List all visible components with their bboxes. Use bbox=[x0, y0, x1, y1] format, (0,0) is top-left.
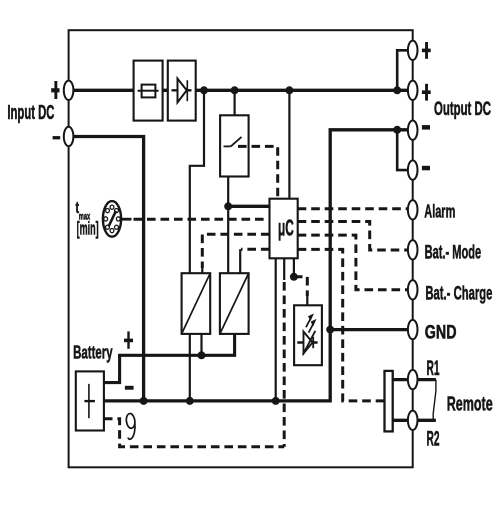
led symbol H1 bbox=[297, 315, 317, 355]
svg-text:Bat.- Charge: Bat.- Charge bbox=[425, 282, 492, 304]
led box bbox=[294, 305, 322, 365]
alarm terminal bbox=[408, 200, 418, 219]
timer knob tmax bbox=[103, 201, 121, 237]
wire uC power feed bbox=[228, 205, 269, 208]
converter box T2 bbox=[220, 273, 249, 334]
wire input plus bus y=90 bbox=[71, 89, 409, 92]
remote switch contact bbox=[433, 380, 436, 421]
svg-text:Bat.- Mode: Bat.- Mode bbox=[425, 241, 482, 263]
dashed switch control line bbox=[238, 146, 278, 198]
output minus sign 2 bbox=[422, 166, 430, 171]
uC led pin solid stub bbox=[293, 258, 295, 277]
junction dot uC power bbox=[224, 202, 232, 210]
wire switch output to converter2 top bbox=[227, 177, 229, 274]
wire converter1 bottom left pin to minus bus bbox=[189, 334, 191, 401]
junction dot battery plus converter1 bbox=[198, 351, 206, 359]
junction dot plus bus at switch feed bbox=[231, 86, 239, 94]
svg-text:Output DC: Output DC bbox=[434, 99, 491, 120]
svg-text:Alarm: Alarm bbox=[424, 201, 455, 222]
output minus sign 1 bbox=[422, 125, 430, 130]
fuse symbol F1 bbox=[138, 85, 159, 98]
bat mode terminal bbox=[408, 240, 418, 259]
wire GND bbox=[330, 328, 409, 331]
svg-text:Remote: Remote bbox=[447, 394, 493, 416]
battery plus sign bbox=[124, 331, 133, 348]
input plus sign bbox=[51, 81, 59, 99]
wire R1 bbox=[393, 378, 436, 381]
converter1 control solid stub bbox=[201, 266, 203, 273]
junction dot plus bus at converter jog bbox=[200, 86, 208, 94]
wire switch feed bbox=[234, 90, 236, 115]
output minus terminal 2 bbox=[408, 160, 418, 179]
svg-text:GND: GND bbox=[425, 323, 457, 344]
fuse box bbox=[134, 61, 163, 121]
dashed theta line from battery bbox=[104, 419, 284, 447]
wire uC pin1 to minus bus bbox=[275, 258, 277, 401]
svg-text:Input DC: Input DC bbox=[7, 102, 54, 124]
dashed theta line vertical bbox=[283, 282, 286, 447]
junction dot minus bus converter1 bbox=[186, 397, 194, 405]
battery minus sign bbox=[125, 386, 134, 390]
dashed remote line bbox=[298, 249, 385, 401]
svg-text:μC: μC bbox=[278, 215, 294, 241]
output plus terminal 1 bbox=[408, 41, 418, 60]
wire jog from plus bus to converter1 top bbox=[190, 90, 204, 273]
remote connector plug bbox=[385, 371, 393, 432]
svg-text:R1: R1 bbox=[427, 357, 440, 380]
dashed bat mode line bbox=[298, 222, 407, 251]
uC theta pin solid stub bbox=[283, 258, 285, 280]
input minus sign bbox=[53, 136, 61, 139]
junction dot plus bus at output branch bbox=[393, 86, 401, 94]
wire battery plus bbox=[104, 334, 235, 383]
output plus terminal 2 bbox=[408, 81, 418, 100]
junction dot gnd bbox=[326, 326, 334, 334]
gnd terminal bbox=[408, 320, 418, 339]
dashed converter2 control line bbox=[241, 248, 270, 251]
wire branch to output minus 2 bbox=[397, 130, 409, 170]
dashed timer line to uC bbox=[134, 218, 270, 221]
switch symbol S1 bbox=[224, 137, 242, 147]
junction dot plus bus at uC sense bbox=[285, 86, 293, 94]
svg-text:[min]: [min] bbox=[77, 219, 99, 239]
diode box bbox=[168, 61, 196, 121]
wire uC sense from plus bus bbox=[288, 90, 290, 198]
dashed led control line bbox=[294, 277, 307, 296]
wire converter1 bottom right pin bbox=[200, 334, 202, 355]
output plus sign 2 bbox=[422, 84, 431, 101]
input minus terminal bbox=[64, 127, 74, 146]
converter2 control solid stub bbox=[239, 249, 241, 273]
output minus terminal 1 bbox=[408, 121, 418, 140]
input plus terminal bbox=[64, 81, 74, 100]
outer enclosure border bbox=[69, 30, 413, 467]
dashed converter1 control line bbox=[202, 234, 269, 268]
junction dot minus bus uC bbox=[272, 397, 280, 405]
theta symbol bbox=[126, 413, 136, 439]
led top pin solid stub bbox=[306, 295, 308, 305]
R2 terminal bbox=[408, 411, 418, 430]
svg-text:R2: R2 bbox=[427, 427, 440, 451]
R1 terminal bbox=[408, 370, 418, 389]
wire R2 bbox=[393, 419, 436, 422]
dashed bat charge line bbox=[298, 235, 407, 290]
switch box bbox=[220, 115, 249, 176]
wire branch to output plus 1 bbox=[397, 50, 409, 90]
wire output minus bus bbox=[104, 130, 409, 401]
junction dot minus bus at output branch bbox=[393, 126, 401, 134]
junction dot minus bus input bbox=[140, 397, 148, 405]
microcontroller box U1 bbox=[270, 199, 298, 259]
battery cell symbol bbox=[84, 384, 95, 418]
timer output solid stub bbox=[121, 218, 131, 221]
dashed alarm line bbox=[298, 207, 407, 210]
output plus sign 1 bbox=[422, 42, 431, 59]
junction dot led control bbox=[290, 273, 298, 281]
diode symbol V1 bbox=[172, 79, 192, 103]
converter box T1 bbox=[182, 273, 211, 334]
battery box G1 bbox=[76, 371, 104, 430]
bat charge terminal bbox=[408, 280, 418, 299]
wire input minus bbox=[71, 137, 144, 401]
svg-text:Battery: Battery bbox=[73, 342, 113, 363]
